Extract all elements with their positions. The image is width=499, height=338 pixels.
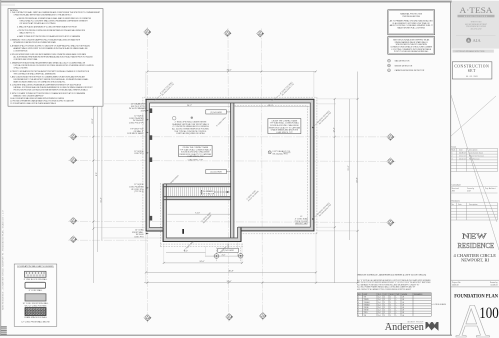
svg-text:12. OR SUMP BACKFILL SHALL NOT: 12. OR SUMP BACKFILL SHALL NOT BE PLACED…	[10, 102, 56, 105]
svg-text:POST IT LEVELLED BE ANCHORED A: POST IT LEVELLED BE ANCHORED ALL	[394, 50, 429, 53]
svg-text:401.274.1232: 401.274.1232	[471, 29, 482, 31]
svg-text:04.08.03: 04.08.03	[491, 285, 498, 287]
svg-text:A·TESA: A·TESA	[460, 6, 493, 15]
legend swatch: new concrete wall	[25, 294, 46, 301]
interior bearing wall	[231, 103, 234, 238]
svg-text:WALLS WITH 2 #5: WALLS WITH 2 #5	[20, 31, 36, 34]
copyright strip	[452, 50, 494, 53]
svg-text:SMOKE DETECTOR: SMOKE DETECTOR	[395, 65, 413, 67]
svg-text:CONC FTG: CONC FTG	[134, 237, 144, 239]
svg-text:21'-8": 21'-8"	[92, 118, 94, 123]
architect logo panel	[452, 1, 499, 49]
svg-text:Field Revision: Field Revision	[469, 158, 480, 160]
room note block left (unboxed)	[172, 122, 209, 136]
corner slab note	[295, 216, 309, 225]
svg-text:04 . 08 . 2003: 04 . 08 . 2003	[466, 76, 478, 78]
room note box left lower	[179, 146, 213, 157]
svg-text:24'-0": 24'-0"	[199, 261, 204, 263]
svg-text:Construction Issue: Construction Issue	[469, 152, 483, 155]
svg-text:4 CONCRETE REINFORCED: 4 CONCRETE REINFORCED	[14, 50, 28, 52]
general notes box	[8, 9, 103, 107]
svg-text:Drawn by: Drawn by	[490, 282, 498, 284]
svg-text:100: 100	[479, 305, 499, 322]
top foundation wall outer face	[145, 98, 314, 100]
stair treads	[169, 187, 227, 196]
svg-text:Revisions: Revisions	[452, 201, 460, 203]
svg-text:Issue: Issue	[452, 146, 457, 148]
void diagonals	[451, 95, 499, 250]
svg-text:Andersen: Andersen	[385, 322, 424, 333]
svg-text:3: 3	[452, 158, 453, 160]
svg-text:FOR BRICK SHELF: FOR BRICK SHELF	[127, 133, 144, 135]
svg-text:Mark: Mark	[452, 149, 456, 152]
foundation walls	[145, 99, 314, 242]
left wall leader notes	[127, 103, 146, 239]
svg-text:Project No: Project No	[452, 281, 460, 284]
svg-text:Permit Set Revision: Permit Set Revision	[469, 155, 484, 158]
svg-text:WINDOW SCHEDULE - ANDERSEN 4: WINDOW SCHEDULE - ANDERSEN 400 SERIES (L…	[357, 274, 426, 277]
svg-text:PROTECTION PROVIDE CONTINUOUS: PROTECTION PROVIDE CONTINUOUS KEYWAY BET…	[14, 89, 88, 92]
Andersen W flag mark	[426, 322, 439, 331]
svg-text:Proj. Architect: Proj. Architect	[485, 187, 496, 190]
svg-text:BEAR ON UNDISTURBED SOIL OR CO: BEAR ON UNDISTURBED SOIL OR COMPACTED ST…	[14, 80, 67, 83]
legend swatch: block foundation	[25, 271, 47, 277]
svg-text:© COPYRIGHT ATESA ARCHITECTURE: © COPYRIGHT ATESA ARCHITECTURE	[454, 50, 486, 53]
svg-text:BITUMINOUS COATING PROVIDE 4 P: BITUMINOUS COATING PROVIDE 4 PERIMETER D…	[14, 41, 56, 44]
svg-text:FOUNDATION WALL HATCH LEGEN: FOUNDATION WALL HATCH LEGEND	[17, 265, 54, 268]
top scan edge	[0, 1, 452, 3]
dimension lines	[93, 72, 357, 284]
svg-text:CONSTRUCTION: CONSTRUCTION	[454, 65, 489, 69]
svg-text:b. SHALL BE PLACED A MINIMUM O: b. SHALL BE PLACED A MINIMUM OF 4'-0 BEL…	[17, 25, 78, 28]
svg-text:05.12.03: 05.12.03	[459, 156, 466, 158]
AIA mark	[456, 35, 496, 37]
handrail note box	[388, 10, 435, 35]
bottom-right foundation wall outer face	[241, 230, 315, 232]
room note box right	[268, 119, 301, 134]
svg-text:Consultant: Consultant	[452, 183, 462, 186]
svg-text:EMBEDDED 7 INTO CONCRETE DAMPP: EMBEDDED 7 INTO CONCRETE DAMPPROOF	[14, 94, 44, 97]
svg-text:OF ANY WORK AND REPORT ANY DIS: OF ANY WORK AND REPORT ANY DISCREPANCIES…	[14, 13, 73, 16]
steel column middle room	[182, 229, 184, 234]
svg-text:24'-2": 24'-2"	[187, 105, 192, 107]
header label boxes	[206, 110, 227, 114]
lally column note	[268, 151, 271, 154]
svg-text:THE CONTRACTOR SHALL VERIFY AL: THE CONTRACTOR SHALL VERIFY ALL DIMENSIO…	[14, 72, 56, 75]
legend swatch: existing wall	[25, 282, 46, 288]
svg-text:06.02.03: 06.02.03	[459, 158, 466, 160]
window schedule notes paragraph	[357, 279, 431, 291]
svg-text:43'-8": 43'-8"	[356, 177, 358, 182]
svg-text:LOAD SPECS, TYP: LOAD SPECS, TYP	[276, 131, 293, 134]
column footing circles below	[213, 248, 244, 263]
column grid lines	[68, 27, 396, 323]
svg-text:04.08.03: 04.08.03	[459, 153, 466, 155]
svg-text:31'-0": 31'-0"	[348, 165, 350, 170]
svg-text:LOW E GLASS: LOW E GLASS	[434, 303, 447, 306]
svg-text:12" CONC FROSTWALL BELOW: 12" CONC FROSTWALL BELOW	[21, 321, 49, 324]
svg-text:ARCHITECTURE: ARCHITECTURE	[464, 15, 488, 18]
svg-text:JOINTS AS REQUIRED IN DETAIL: JOINTS AS REQUIRED IN DETAIL	[176, 132, 205, 135]
stair note box	[388, 37, 435, 55]
svg-text:8" CMU BLOCK FDN WALL: 8" CMU BLOCK FDN WALL	[24, 278, 48, 281]
right foundation wall outer face	[313, 99, 315, 231]
dimension texts	[92, 70, 358, 283]
faint corner smudge	[1, 4, 15, 6]
svg-text:LOAD SPEC, TYP: LOAD SPEC, TYP	[188, 158, 204, 161]
svg-text:NEW RESIDENCE - 4 CHARTIER C: NEW RESIDENCE - 4 CHARTIER CIRCLE, NEWPO…	[2, 210, 5, 310]
bottom sheet border line	[0, 335, 452, 336]
window schedule table	[357, 293, 431, 296]
stair corridor walls	[164, 184, 231, 200]
svg-text:AIA: AIA	[473, 38, 482, 43]
svg-text:DLM: DLM	[467, 191, 471, 193]
svg-text:GAS DETECTOR: GAS DETECTOR	[395, 60, 411, 63]
svg-text:HDWE: HDWE	[402, 294, 408, 296]
svg-text:TWMAJ: TWMAJ	[364, 301, 370, 304]
svg-text:CRAWLSPACE FDN WALL: CRAWLSPACE FDN WALL	[24, 316, 47, 319]
svg-text:(2) 2x10 HDR: (2) 2x10 HDR	[210, 172, 222, 174]
svg-text:REMARKS: REMARKS	[414, 293, 423, 296]
svg-text:2-4: 2-4	[378, 315, 381, 317]
svg-text:LOAD SPECS, TYP: LOAD SPECS, TYP	[187, 155, 204, 158]
rotated wall labels	[159, 81, 332, 255]
svg-text:1: 1	[390, 315, 391, 317]
svg-text:OF 3000 PSI AT 28 DAYS ALL FOO: OF 3000 PSI AT 28 DAYS ALL FOOTINGS	[20, 22, 57, 25]
svg-text:74'-0": 74'-0"	[226, 281, 231, 283]
construction set stamp	[452, 62, 492, 79]
svg-text:8: 8	[358, 315, 359, 317]
extension lines	[93, 71, 359, 284]
svg-text:W/ 2'-0" CONC FOOTING: W/ 2'-0" CONC FOOTING	[25, 306, 47, 308]
svg-text:Drawn by: Drawn by	[467, 187, 474, 190]
foundation wall hatch legend box	[14, 264, 57, 326]
svg-text:CONC FTG: CONC FTG	[134, 153, 144, 155]
svg-text:2: 2	[452, 156, 453, 158]
svg-text:4'-0": 4'-0"	[222, 254, 226, 256]
detector legend	[388, 59, 391, 62]
svg-text:2003.08: 2003.08	[452, 285, 459, 287]
svg-text:CONCRETE SEE STRUCTURAL: CONCRETE SEE STRUCTURAL	[14, 58, 39, 61]
project data rows	[451, 279, 499, 281]
svg-text:Date: Date	[458, 203, 462, 206]
wall fill bands	[145, 99, 314, 241]
svg-text:CARBON MONOXIDE DETECTOR: CARBON MONOXIDE DETECTOR	[395, 69, 425, 72]
leader dots	[312, 218, 313, 219]
svg-text:SET: SET	[468, 69, 476, 73]
corner file stamp block	[1, 326, 7, 335]
svg-text:RESIDENCE: RESIDENCE	[458, 241, 495, 250]
svg-text:AND CEILING TIP ALL AREAS FITT: AND CEILING TIP ALL AREAS FITTING CONSID…	[357, 288, 412, 291]
svg-text:Description: Description	[469, 149, 478, 152]
dimension ticks	[92, 71, 358, 284]
wall pilasters	[149, 108, 152, 220]
svg-text:46'-8": 46'-8"	[228, 271, 233, 273]
svg-text:8'-0": 8'-0"	[96, 172, 98, 176]
svg-text:UNIT: UNIT	[364, 294, 368, 296]
svg-text:(2) 2x10 HDR: (2) 2x10 HDR	[210, 112, 222, 114]
svg-text:CONC FTG (TYP): CONC FTG (TYP)	[129, 123, 144, 125]
svg-text:Date: Date	[459, 149, 463, 152]
garage bay south wall outer face	[163, 241, 242, 243]
svg-text:MADE SHORE IF ALL LIGHTING: MADE SHORE IF ALL LIGHTING	[398, 26, 426, 29]
svg-text:NEW: NEW	[462, 232, 488, 241]
svg-text:TW: TW	[364, 315, 367, 317]
svg-text:(TYP OF 4): (TYP OF 4)	[134, 191, 144, 193]
svg-text:TWMAJ: TWMAJ	[364, 303, 370, 306]
svg-text:d. BARS TOP AND BOTTOM PROVIDE: d. BARS TOP AND BOTTOM PROVIDE 1/2 DIA A…	[17, 35, 80, 38]
svg-text:7'-10": 7'-10"	[195, 212, 200, 214]
left scan edge	[0, 0, 1, 336]
svg-text:8" CONC WALL: 8" CONC WALL	[29, 289, 42, 292]
svg-text:1: 1	[452, 153, 453, 155]
svg-text:12'-4": 12'-4"	[333, 127, 335, 132]
svg-text:PER REGULATIONS: PER REGULATIONS	[403, 15, 421, 18]
svg-text:OF ALL UTILITIES: OF ALL UTILITIES	[14, 66, 28, 69]
svg-text:2: 2	[384, 315, 385, 317]
detector symbols	[172, 116, 176, 120]
titleblock divider	[449, 2, 452, 335]
svg-text:Description: Description	[469, 203, 478, 206]
svg-text:31'-4": 31'-4"	[101, 197, 103, 202]
svg-text:(TYP): (TYP)	[141, 111, 146, 113]
svg-text:ON 24x24x12 FTG: ON 24x24x12 FTG	[272, 153, 288, 155]
footing dashed lines	[143, 97, 317, 247]
svg-text:R.O.: R.O.	[378, 294, 382, 296]
svg-text:74'-0": 74'-0"	[226, 70, 231, 72]
svg-text:@ 7 3/4" UP: @ 7 3/4" UP	[203, 194, 215, 196]
left foundation wall outer face	[145, 99, 147, 231]
svg-text:Structural: Structural	[452, 187, 460, 190]
